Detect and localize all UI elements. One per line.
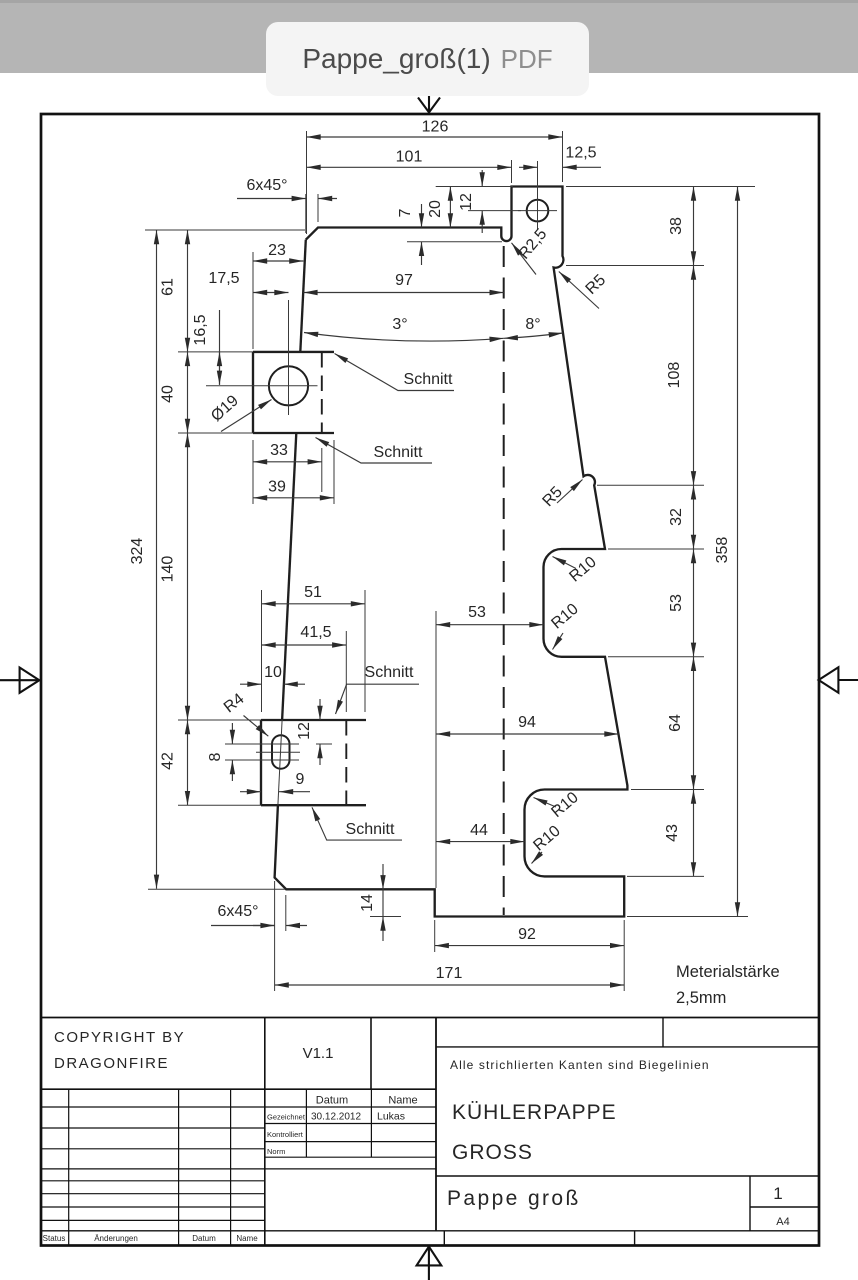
slot centerline slant (edge through flap) <box>278 720 282 805</box>
dim 108 line <box>693 266 695 486</box>
main bend line (dashed) <box>503 246 505 915</box>
svg-text:12,5: 12,5 <box>565 145 596 162</box>
svg-text:32: 32 <box>668 508 685 526</box>
dim 53h line <box>436 624 544 626</box>
dim 51/41.5 ext left <box>261 590 263 712</box>
dim 6x45 bottom arrow right <box>286 925 307 927</box>
dim 20 extension <box>436 186 513 188</box>
dim 12b tail bottom <box>319 744 321 765</box>
right centering arrow <box>819 667 858 692</box>
svg-text:38: 38 <box>668 217 685 235</box>
svg-text:R4: R4 <box>221 690 248 716</box>
dim 140 line <box>187 433 189 720</box>
dim 41.5 line <box>262 644 347 646</box>
part main outline <box>275 187 628 917</box>
slot centerline top horizontal <box>225 743 299 745</box>
flap2 bottom edge <box>261 804 366 806</box>
svg-text:101: 101 <box>396 149 423 166</box>
svg-text:Name: Name <box>236 1234 258 1243</box>
dim 16.5 line <box>219 310 221 385</box>
svg-text:Pappe groß: Pappe groß <box>447 1187 581 1210</box>
dim 12.5 tail right <box>563 166 602 168</box>
svg-text:358: 358 <box>714 537 731 564</box>
dim 51 line <box>262 603 366 605</box>
svg-text:53: 53 <box>468 604 486 621</box>
svg-text:R2,5: R2,5 <box>516 226 551 263</box>
dim 10 tail left <box>240 683 262 685</box>
dim 10 tail right <box>284 683 305 685</box>
slot R4 <box>272 735 290 769</box>
tab hole R2.5 circle <box>527 200 549 222</box>
svg-text:41,5: 41,5 <box>300 624 331 641</box>
dim 6x45 top arrow right <box>318 198 337 200</box>
dim 6x45 bottom ext b <box>285 895 287 931</box>
svg-text:61: 61 <box>160 278 177 296</box>
flap1 left edge <box>252 352 254 433</box>
svg-text:Lukas: Lukas <box>377 1111 405 1123</box>
dim 38 line <box>693 187 695 266</box>
label R10 a leader <box>553 557 577 569</box>
svg-text:COPYRIGHT BY: COPYRIGHT BY <box>54 1029 185 1046</box>
dim 23/17.5 extension left <box>252 252 254 349</box>
svg-text:R5: R5 <box>583 271 610 298</box>
dim 33 line <box>253 461 322 463</box>
svg-text:3°: 3° <box>392 316 407 333</box>
label R10 d leader <box>532 852 543 864</box>
dim 6x45 top ext b <box>317 194 319 222</box>
part left edge segment (between flap1 and flap2) <box>282 433 296 720</box>
flap1 top edge <box>253 351 334 353</box>
dim 41.5 ext right <box>345 631 347 712</box>
dim 126 extension right <box>562 131 564 182</box>
svg-text:Schnitt: Schnitt <box>404 371 453 388</box>
right ext y876.4 <box>627 875 704 877</box>
schnitt2 leader <box>316 438 433 464</box>
label D19 leader <box>221 400 272 432</box>
title block texts <box>43 1029 790 1243</box>
dim 8 tail top <box>231 723 233 744</box>
right ext y186.5 <box>566 186 755 188</box>
dim 12.5 tail left <box>519 166 538 168</box>
right ext y485.3 <box>597 484 704 486</box>
svg-text:A4: A4 <box>776 1216 789 1228</box>
dim 14 mid line <box>382 889 384 916</box>
flap2 top edge <box>261 719 366 721</box>
svg-text:8: 8 <box>207 752 224 761</box>
svg-text:6x45°: 6x45° <box>246 177 287 194</box>
svg-text:Ø19: Ø19 <box>208 392 242 425</box>
dim 92 ext left <box>434 920 436 952</box>
dim 6x45 bottom ext a <box>274 881 276 991</box>
label R2.5 leader <box>512 243 537 275</box>
svg-text:Norm: Norm <box>267 1147 285 1156</box>
svg-text:9: 9 <box>296 771 305 788</box>
tab hole centerline horizontal <box>518 210 557 212</box>
dim 44 line <box>436 841 525 843</box>
dim 14 tail top <box>382 864 384 889</box>
dim 101 extension right <box>511 160 513 183</box>
label R10 b leader <box>553 633 564 650</box>
svg-text:12: 12 <box>458 193 475 211</box>
svg-text:Name: Name <box>388 1095 417 1107</box>
dim 39 line <box>253 497 334 499</box>
dim 12b extension <box>316 743 332 745</box>
svg-text:Änderungen: Änderungen <box>94 1234 138 1243</box>
dim 16.5 extension at y352 <box>178 351 253 353</box>
dim 40 line <box>187 352 189 433</box>
hole D19 centerline horizontal <box>206 385 318 387</box>
dim 43 line <box>693 790 695 877</box>
label R10 c leader <box>534 798 557 808</box>
dim 6x45 bottom arrow left <box>253 925 275 927</box>
svg-text:1: 1 <box>773 1184 782 1203</box>
dim 12 extension <box>468 210 521 212</box>
svg-text:R5: R5 <box>540 484 567 511</box>
dim 92/171 ext right <box>623 920 625 991</box>
svg-text:DRAGONFIRE: DRAGONFIRE <box>54 1055 169 1072</box>
dim 61 line <box>187 230 189 352</box>
dim 6x45 top underline <box>237 198 285 200</box>
svg-text:6x45°: 6x45° <box>217 903 258 920</box>
svg-text:30.12.2012: 30.12.2012 <box>311 1112 361 1123</box>
svg-text:64: 64 <box>667 714 684 732</box>
flap1 bottom edge <box>253 432 334 434</box>
dim 33/39 ext left <box>252 440 254 504</box>
svg-text:7: 7 <box>397 208 414 217</box>
dim 23 line <box>253 260 303 262</box>
dim 6x45 top arrow left <box>285 198 306 200</box>
dim 42 extension at y720 <box>178 719 261 721</box>
svg-text:51: 51 <box>304 584 322 601</box>
svg-text:33: 33 <box>270 442 288 459</box>
dim 3deg arc <box>304 333 504 342</box>
viewer top strip <box>0 0 858 3</box>
svg-text:Schnitt: Schnitt <box>346 821 395 838</box>
dim 171 line <box>275 984 625 986</box>
left centering arrow <box>0 668 39 693</box>
svg-text:Kontrolliert: Kontrolliert <box>267 1130 304 1139</box>
slot centerline mid horizontal <box>256 751 300 753</box>
dim 33 ext right <box>321 448 323 492</box>
svg-text:2,5mm: 2,5mm <box>676 989 726 1007</box>
top centering arrow <box>418 96 440 112</box>
svg-text:44: 44 <box>470 822 488 839</box>
dim 16.5 arrows <box>219 352 221 385</box>
dim 32 line <box>693 485 695 549</box>
flap1 bend line (dashed) <box>321 352 323 433</box>
dim 126 line <box>307 136 563 138</box>
svg-text:42: 42 <box>160 752 177 770</box>
right ext y656.8 <box>608 656 704 658</box>
label R5 lower leader <box>557 480 583 504</box>
dim 101 line <box>307 166 512 168</box>
svg-text:Schnitt: Schnitt <box>365 664 414 681</box>
bottom centering arrow <box>417 1247 442 1280</box>
hole D19 centerline vertical <box>288 300 290 415</box>
svg-text:Status: Status <box>43 1234 66 1243</box>
dim 7 tail bottom <box>421 242 423 265</box>
svg-text:43: 43 <box>664 824 681 842</box>
part left edge segment (between flap1 and top) <box>300 240 306 352</box>
right ext y916.5 <box>627 916 748 918</box>
svg-text:Meterialstärke: Meterialstärke <box>676 963 780 981</box>
svg-text:10: 10 <box>264 664 282 681</box>
dim 64 line <box>693 657 695 790</box>
svg-text:Gezeichnet: Gezeichnet <box>267 1113 306 1122</box>
svg-text:40: 40 <box>160 385 177 403</box>
dim 20 line <box>449 187 451 228</box>
hole D19 <box>269 366 308 405</box>
svg-text:140: 140 <box>160 556 177 583</box>
svg-text:Datum: Datum <box>192 1234 216 1243</box>
right ext y789.5 <box>631 789 704 791</box>
dim 97 line <box>303 292 503 294</box>
svg-text:17,5: 17,5 <box>208 270 239 287</box>
flap2 left edge <box>260 720 262 805</box>
svg-text:53: 53 <box>668 594 685 612</box>
svg-text:39: 39 <box>268 479 286 496</box>
svg-text:R10: R10 <box>566 554 599 586</box>
dim 324 bottom extension <box>148 888 285 890</box>
svg-text:14: 14 <box>359 894 376 912</box>
svg-text:23: 23 <box>268 242 286 259</box>
svg-text:97: 97 <box>395 272 413 289</box>
title block grid <box>41 1018 819 1246</box>
dim 92 line <box>435 945 625 947</box>
label R4 leader <box>244 716 269 737</box>
svg-text:R10: R10 <box>548 601 581 633</box>
schnitt3 leader <box>336 684 420 714</box>
svg-text:R10: R10 <box>530 823 563 855</box>
svg-text:12: 12 <box>296 722 313 740</box>
dim 324 line <box>156 230 158 889</box>
svg-text:R10: R10 <box>548 789 581 821</box>
right ext y265.5 <box>566 265 704 267</box>
svg-text:94: 94 <box>518 714 536 731</box>
dim 51 ext right <box>364 590 366 712</box>
dim 12b tail top <box>319 699 321 720</box>
slot centerline bottom horizontal <box>225 759 299 761</box>
svg-text:8°: 8° <box>525 316 540 333</box>
svg-text:Schnitt: Schnitt <box>374 444 423 461</box>
svg-text:92: 92 <box>518 926 536 943</box>
dim 14 tail bottom <box>382 917 384 942</box>
dim 17.5 line <box>253 292 289 294</box>
schnitt4 leader <box>312 807 402 840</box>
dim 94 line <box>436 733 619 735</box>
tab hole centerline vertical <box>537 161 539 230</box>
svg-text:Alle strichlierten Kanten sind: Alle strichlierten Kanten sind Biegelini… <box>450 1058 710 1072</box>
svg-text:GROSS: GROSS <box>452 1141 533 1164</box>
dim 7 extension <box>407 241 502 243</box>
svg-text:324: 324 <box>129 538 146 565</box>
dim 358 line <box>737 187 739 917</box>
dim 9 tail right <box>279 791 310 793</box>
svg-text:171: 171 <box>436 965 463 982</box>
dim 126 extension left <box>306 131 308 234</box>
dim 324/61 top extension <box>145 229 305 231</box>
label R5 upper leader <box>559 272 599 309</box>
dim 6x45 top ext a <box>305 194 307 233</box>
dim 42 line <box>187 720 189 805</box>
svg-text:V1.1: V1.1 <box>303 1045 334 1062</box>
viewer gray band <box>0 3 858 73</box>
right ext y549 <box>608 548 704 550</box>
dim 9 tail left <box>240 791 261 793</box>
svg-text:20: 20 <box>427 200 444 218</box>
svg-text:Datum: Datum <box>316 1095 348 1107</box>
dim 8deg arc <box>504 333 563 338</box>
dim 53v line <box>693 549 695 657</box>
bottom-left extension/edge line <box>435 611 437 888</box>
dim 12 tail top <box>481 170 483 187</box>
svg-text:KÜHLERPAPPE: KÜHLERPAPPE <box>452 1101 617 1124</box>
dim 40/140 extension at y433 <box>178 432 253 434</box>
filename tab <box>266 22 589 96</box>
svg-text:126: 126 <box>422 119 449 136</box>
flap2 bend line (dashed) <box>345 720 347 805</box>
dim 7 tail top <box>421 204 423 228</box>
dim 42 extension at y805 <box>178 804 261 806</box>
dim 39 ext right <box>333 440 335 504</box>
dim 6x45 bottom underline <box>211 925 275 927</box>
svg-text:16,5: 16,5 <box>192 314 209 345</box>
dim 8 tail bottom <box>231 760 233 781</box>
dim 12 tail bottom <box>481 211 483 233</box>
svg-text:108: 108 <box>666 362 683 389</box>
dim 14 extension <box>370 916 401 918</box>
schnitt1 leader <box>335 354 455 391</box>
